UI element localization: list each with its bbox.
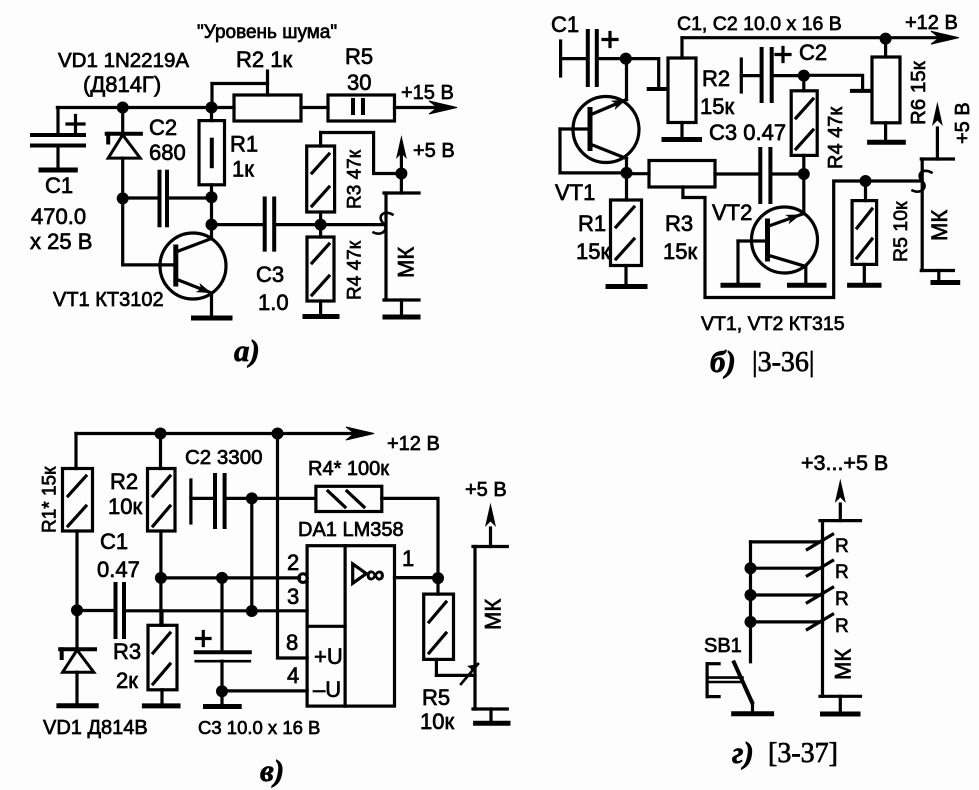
node pin3 junction [246, 605, 258, 617]
svg-text:2к: 2к [116, 668, 138, 693]
svg-text:+15 В: +15 В [401, 82, 454, 104]
wiper bar R6 [852, 89, 871, 93]
transistor VT1 b [560, 59, 639, 173]
ground C1 [41, 168, 75, 173]
ground VD1 v [59, 703, 96, 708]
pin4 wire [220, 689, 308, 692]
wire node to MK b [866, 179, 921, 182]
svg-text:–U: –U [313, 677, 341, 702]
svg-text:R1: R1 [230, 132, 258, 157]
wire node to R2 wiper [626, 59, 659, 88]
wire output to MK [321, 223, 383, 226]
node VD1-C2 [117, 192, 129, 204]
wire R5 to MK v [436, 674, 475, 677]
svg-text:4: 4 [287, 663, 299, 688]
arrow +5V a [400, 155, 403, 174]
node output v [432, 572, 444, 584]
svg-text:R4 47к: R4 47к [345, 240, 366, 300]
node bus row2 [745, 562, 757, 574]
resistor R4 b 47k [791, 76, 817, 174]
pin2 wire with circle [161, 576, 300, 579]
svg-text:а): а) [234, 333, 260, 368]
svg-text:+U: +U [314, 644, 343, 669]
wire R2 to R5 [301, 106, 328, 109]
transistor VT2 b [738, 174, 818, 284]
resistor R1 1k [199, 108, 225, 198]
node junction VD1-rail [117, 102, 129, 114]
pin1 wire [395, 576, 439, 579]
node bus row4 [745, 616, 757, 628]
ground VT1 emitter [194, 316, 231, 321]
svg-text:R5: R5 [422, 685, 450, 710]
bus wire left g [749, 542, 752, 662]
svg-text:МК: МК [394, 247, 419, 278]
wire pin2 node down to C3 [220, 578, 223, 652]
svg-text:C2 3300: C2 3300 [185, 446, 263, 469]
ground R5 b [850, 283, 879, 288]
wire R2 node down to R3 [159, 578, 162, 625]
resistor R1 b 15k [611, 173, 642, 285]
node junction R1-rail [206, 102, 218, 114]
node bus row3 [745, 589, 757, 601]
pin8 wire [278, 434, 308, 659]
svg-text:x 25 В: x 25 В [30, 229, 92, 254]
svg-text:680: 680 [149, 140, 186, 165]
svg-text:10к: 10к [108, 494, 142, 519]
svg-text:R: R [835, 616, 849, 637]
capacitor C1 b [561, 31, 626, 85]
resistor R5 b 10k [852, 181, 877, 284]
svg-text:VD1 1N2219A: VD1 1N2219A [58, 49, 189, 72]
svg-text:[3-37]: [3-37] [768, 738, 838, 769]
tap wire R row1 [751, 540, 823, 543]
svg-text:МК: МК [481, 599, 506, 630]
svg-text:2: 2 [287, 550, 299, 575]
svg-text:∞: ∞ [366, 559, 385, 589]
svg-text:R3: R3 [665, 211, 693, 236]
svg-text:R6 15к: R6 15к [907, 60, 930, 125]
svg-text:"Уровень шума": "Уровень шума" [197, 22, 337, 43]
microphone MK v [473, 547, 507, 722]
node R5-MK b [860, 175, 872, 187]
zener diode VD1 [107, 108, 141, 199]
microphone MK b [921, 159, 953, 281]
svg-text:R3: R3 [113, 639, 141, 664]
svg-text:R1* 15к: R1* 15к [40, 466, 61, 533]
node C3-pin4 [216, 685, 228, 697]
capacitor C2 v [191, 475, 316, 527]
node C2-pin3 wire [246, 492, 258, 504]
microphone MK a [384, 174, 419, 316]
transistor VT1 KT3102 [160, 225, 226, 317]
svg-text:+3...+5 В: +3...+5 В [801, 451, 888, 475]
svg-text:R2: R2 [702, 66, 730, 91]
wire VD1 node to VT1 base [123, 198, 172, 265]
svg-text:8: 8 [286, 630, 298, 655]
ground C3 v [220, 691, 223, 704]
node rail-pin8 [272, 428, 284, 440]
capacitor C2 b [741, 48, 804, 102]
svg-text:VT2: VT2 [712, 200, 752, 225]
svg-text:470.0: 470.0 [31, 204, 86, 229]
node C2-R4 [798, 70, 810, 82]
capacitor C3 v electrolytic [196, 632, 250, 692]
resistor R2 v 10k [148, 434, 176, 578]
arrow +5V v [489, 528, 492, 547]
svg-text:+5 В: +5 В [413, 140, 455, 162]
ground R1 b [608, 284, 645, 289]
resistor R2 b 15k [668, 38, 696, 138]
svg-text:30: 30 [347, 70, 371, 95]
svg-text:МК: МК [927, 210, 952, 241]
node R1-C2 [206, 191, 218, 203]
svg-text:R4 47к: R4 47к [825, 107, 847, 169]
svg-text:R5: R5 [345, 44, 373, 69]
svg-text:3: 3 [287, 584, 299, 609]
svg-text:R3 47к: R3 47к [345, 149, 366, 209]
ground R4 [305, 314, 337, 319]
resistor R3 47k [307, 133, 335, 225]
wire +12V rail b with arrow [682, 36, 939, 39]
svg-text:C3 0.47: C3 0.47 [709, 120, 786, 145]
ground MK a [385, 315, 418, 320]
svg-text:VT1: VT1 [555, 180, 595, 205]
svg-text:R4* 100к: R4* 100к [308, 458, 389, 480]
ground R6 [870, 140, 904, 145]
svg-text:МК: МК [831, 649, 856, 680]
slash R row1 [807, 534, 832, 549]
svg-text:C2: C2 [799, 40, 827, 65]
svg-text:R: R [835, 536, 849, 557]
microphone MK g body [820, 521, 861, 712]
wire R4 to output node [382, 498, 438, 578]
svg-text:1.0: 1.0 [258, 290, 289, 315]
trimmer R2 1k [212, 71, 301, 121]
svg-text:VT1 КТ3102: VT1 КТ3102 [53, 289, 164, 311]
resistor R3 v 2k [148, 611, 177, 704]
wire +15V with arrow [395, 106, 438, 109]
push button SB1 [707, 662, 752, 713]
arrow +5V b [936, 128, 939, 159]
svg-text:+12 В: +12 В [905, 12, 958, 34]
capacitor C1 v 0.47 [77, 584, 307, 637]
svg-text:C1: C1 [45, 173, 73, 198]
zener VD1 v [60, 610, 95, 705]
svg-text:1к: 1к [232, 157, 254, 182]
svg-text:+12 В: +12 В [387, 433, 440, 455]
resistor R4* 100k [316, 486, 382, 511]
wire C2 node down to pin3 [250, 498, 253, 611]
node rail-R6 [880, 33, 892, 45]
svg-text:15к: 15к [576, 239, 610, 264]
node R1-C1 v [71, 604, 83, 616]
node collector [206, 219, 218, 231]
tap wire R row2 [751, 567, 823, 570]
svg-text:R2 1к: R2 1к [236, 47, 292, 72]
ground R3 v [144, 703, 178, 708]
node R2-pin2 [155, 572, 167, 584]
tap wire R row4 [751, 620, 823, 623]
node C3-VT2 [798, 168, 810, 180]
svg-text:1: 1 [402, 546, 414, 571]
svg-text:10к: 10к [420, 709, 454, 734]
svg-text:VD1 Д814В: VD1 Д814В [43, 717, 148, 739]
svg-text:C1: C1 [551, 12, 579, 37]
wire R1 bottom to collector node [210, 197, 213, 224]
wire node to R6 wiper [804, 75, 863, 91]
ground MK b [933, 280, 958, 285]
svg-text:C2: C2 [149, 115, 177, 140]
node VT1-R1-R3 [621, 167, 633, 179]
svg-text:C1, C2 10.0 x 16 В: C1, C2 10.0 x 16 В [677, 13, 842, 35]
ground MK v [476, 721, 508, 726]
capacitor C1 (470.0 x25V) [32, 108, 84, 169]
svg-text:+5 В: +5 В [952, 102, 974, 144]
svg-text:R1: R1 [578, 211, 606, 236]
node +5V a [395, 168, 407, 180]
wire +12V rail v with arrow [76, 432, 352, 435]
arrow slash MK v [461, 664, 478, 684]
ground R2 b [664, 137, 700, 142]
svg-text:DA1 LM358: DA1 LM358 [298, 519, 404, 541]
svg-text:в): в) [260, 753, 284, 788]
slash R row2 [807, 561, 832, 576]
arrow +3..+5V [839, 504, 842, 521]
svg-text:(Д814Г): (Д814Г) [83, 72, 161, 97]
input terminal C2 v [189, 480, 192, 523]
svg-text:C3: C3 [256, 262, 284, 287]
svg-text:|3-36|: |3-36| [752, 347, 815, 378]
capacitor C3 1.0 [212, 199, 321, 250]
svg-text:R2: R2 [110, 469, 138, 494]
resistor R4 47k [307, 225, 334, 315]
node output a [315, 219, 327, 231]
svg-text:г): г) [732, 735, 754, 770]
svg-text:15к: 15к [663, 239, 697, 264]
resistor R5 30 [328, 95, 395, 121]
tap wire R row3 [751, 593, 823, 596]
wire R3 tap wrap-around [683, 181, 866, 298]
svg-text:R5 10к: R5 10к [890, 201, 912, 262]
wire R3 top to +5V node [321, 133, 402, 174]
svg-text:R: R [835, 562, 849, 583]
node rail-R2 v [155, 428, 167, 440]
slash R row4 [807, 614, 832, 629]
hook squiggle MK a [374, 213, 393, 234]
resistor R6 15k [872, 39, 900, 141]
wiper bar R2 b [649, 87, 668, 91]
node C1-VT1 [620, 53, 632, 65]
svg-text:C1: C1 [100, 529, 128, 554]
resistor R3 b 15k horizontal [627, 161, 716, 188]
svg-text:б): б) [710, 344, 736, 379]
slash R row3 [807, 587, 832, 602]
op-amp DA1 LM358 [307, 546, 394, 706]
svg-text:0.47: 0.47 [97, 557, 140, 582]
resistor R1* 15k [63, 434, 93, 611]
svg-text:+5 В: +5 В [465, 479, 507, 501]
wire top rail a [57, 106, 234, 109]
svg-text:VT1, VT2 КТ315: VT1, VT2 КТ315 [701, 313, 845, 335]
capacitor C3 b 0.47 [715, 149, 804, 202]
capacitor C2 680 [123, 172, 212, 226]
hook squiggle MK b [913, 171, 932, 192]
ground MK g [823, 712, 859, 717]
ground VT2 emitter [790, 283, 825, 288]
svg-text:R: R [835, 589, 849, 610]
svg-text:15к: 15к [700, 94, 734, 119]
node C3-pin2 [216, 572, 228, 584]
svg-text:C3 10.0 x 16 В: C3 10.0 x 16 В [198, 717, 320, 738]
input terminal C1 b [559, 41, 562, 76]
svg-text:SB1: SB1 [704, 635, 742, 657]
ground VT2 base [723, 283, 758, 288]
resistor R5 v 10k [424, 578, 454, 675]
ground SB1 [734, 711, 772, 716]
